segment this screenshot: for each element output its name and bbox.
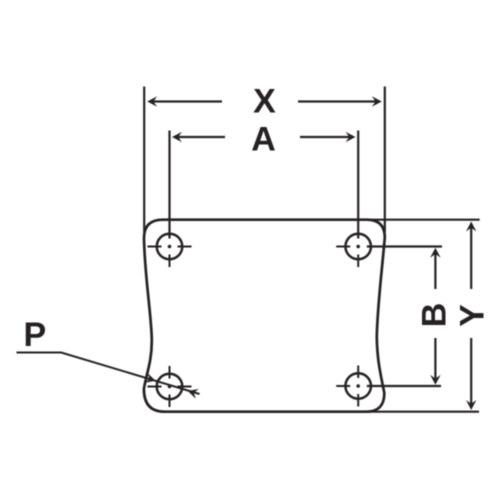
svg-text:Y: Y bbox=[453, 304, 491, 327]
svg-text:X: X bbox=[253, 82, 276, 120]
svg-text:A: A bbox=[251, 120, 276, 158]
svg-text:P: P bbox=[23, 316, 46, 354]
svg-text:B: B bbox=[415, 303, 453, 328]
